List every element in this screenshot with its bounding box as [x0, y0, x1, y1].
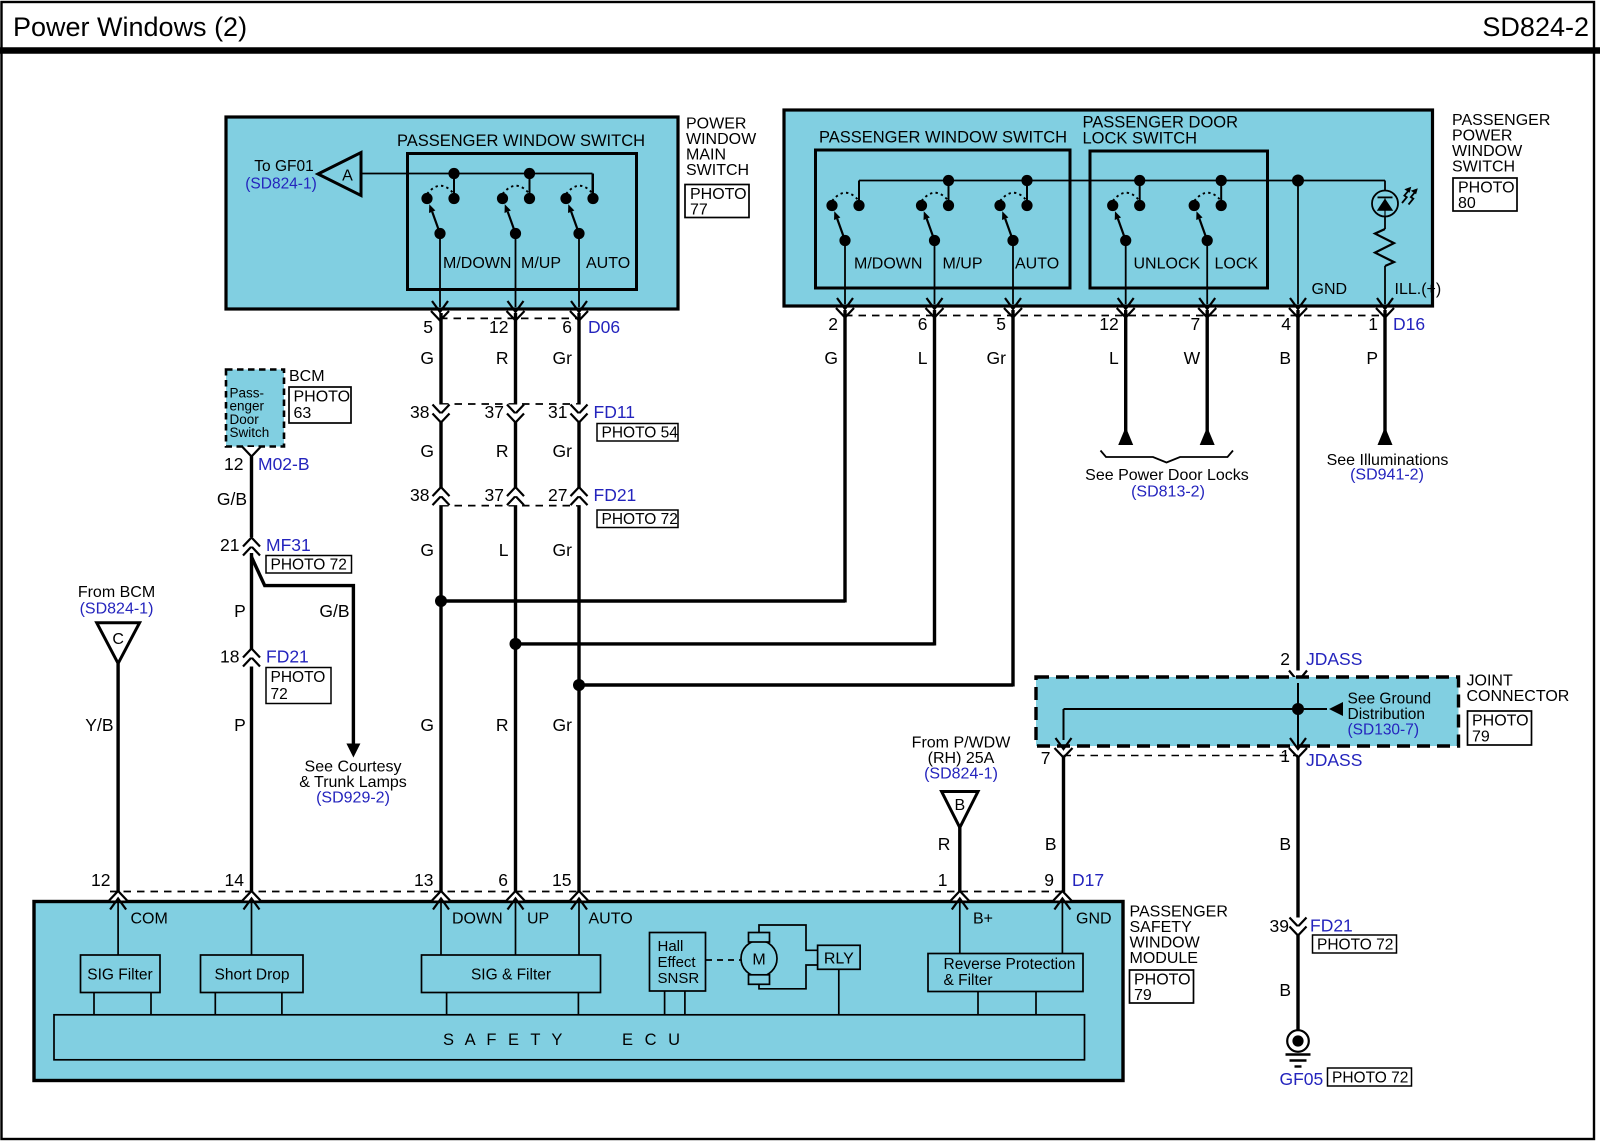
connector D16 pin 7: [1198, 308, 1216, 318]
svg-text:SWITCH: SWITCH: [686, 162, 749, 179]
wire: pin2 G down and left to junction: [843, 310, 846, 603]
svg-text:AUTO: AUTO: [586, 255, 630, 272]
connector JDASS pin 1 exit: [1289, 748, 1307, 758]
svg-text:& Filter: & Filter: [944, 972, 993, 989]
svg-text:PASSENGER WINDOW SWITCH: PASSENGER WINDOW SWITCH: [819, 129, 1067, 147]
svg-text:MAIN: MAIN: [686, 147, 726, 164]
switch M/UP (passenger): [948, 181, 950, 206]
svg-text:RLY: RLY: [824, 951, 854, 968]
connector D17 pin 13: [432, 891, 450, 901]
svg-text:SD824-2: SD824-2: [1482, 12, 1589, 42]
svg-text:38: 38: [410, 485, 429, 505]
passenger safety window module (cyan box): [34, 902, 1123, 1081]
svg-text:G: G: [824, 348, 838, 368]
wire P: MF31 down to module pin 14: [250, 553, 253, 892]
wire: pin13 to SIG & Filter: [440, 903, 442, 955]
node: GND tap on rail: [1292, 175, 1304, 187]
svg-text:6: 6: [562, 317, 572, 337]
wire: pin4 B (GND) down to joint connector: [1296, 310, 1299, 671]
wire: pin9 GND to reverse protection: [1061, 903, 1063, 954]
svg-text:Distribution: Distribution: [1348, 706, 1426, 723]
svg-text:L: L: [1109, 348, 1119, 368]
svg-text:W: W: [1184, 348, 1201, 368]
svg-text:M: M: [752, 952, 765, 969]
connector FD21 dashed line: [441, 505, 579, 507]
svg-text:5: 5: [423, 317, 433, 337]
photo box PHOTO 77: [685, 185, 749, 218]
svg-text:37: 37: [485, 485, 504, 505]
svg-text:M/UP: M/UP: [943, 256, 983, 273]
block Short Drop: [201, 955, 304, 993]
svg-text:2: 2: [1280, 649, 1290, 669]
svg-text:(SD824-1): (SD824-1): [924, 766, 998, 783]
svg-text:Gr: Gr: [987, 348, 1007, 368]
svg-text:(SD813-2): (SD813-2): [1131, 484, 1205, 501]
svg-text:Short Drop: Short Drop: [215, 967, 290, 984]
node: junction on G wire: [435, 595, 447, 607]
wire: UNLOCK to pin 12: [1125, 239, 1127, 305]
svg-text:G: G: [420, 348, 434, 368]
wire RLY to ECU: [838, 969, 840, 1015]
svg-text:PHOTO: PHOTO: [690, 186, 747, 203]
svg-text:(SD941-2): (SD941-2): [1350, 467, 1424, 484]
inner switch frame (main): [408, 154, 637, 290]
svg-text:PHOTO: PHOTO: [1472, 713, 1529, 730]
svg-text:AUTO: AUTO: [1015, 256, 1059, 273]
wire B: JDASS pin1 down to FD21: [1296, 757, 1299, 918]
wire R: triangle B to module pin 1: [958, 828, 961, 893]
svg-text:SAFETY: SAFETY: [1130, 919, 1193, 936]
svg-text:12: 12: [1099, 314, 1118, 334]
svg-text:G/B: G/B: [319, 601, 349, 621]
svg-text:Power Windows (2): Power Windows (2): [13, 12, 247, 42]
arrow to power door locks (left): [1118, 427, 1133, 445]
photo box PHOTO 72: [266, 668, 331, 704]
connector FD21 pin 38: [433, 496, 450, 505]
svg-text:WINDOW: WINDOW: [1452, 143, 1523, 160]
svg-text:Gr: Gr: [553, 348, 573, 368]
svg-text:M/DOWN: M/DOWN: [854, 256, 922, 273]
svg-text:LOCK: LOCK: [1215, 256, 1259, 273]
motor loop wiring: [759, 925, 818, 950]
connector D16 dashed line: [845, 315, 1385, 317]
svg-text:From P/WDW: From P/WDW: [912, 735, 1012, 752]
svg-text:WINDOW: WINDOW: [686, 131, 757, 148]
connector D16 pin 1: [1376, 308, 1394, 318]
wire G (pin5) D06 to module pin13: [439, 313, 442, 892]
photo box PHOTO 72: [266, 556, 352, 574]
svg-text:15: 15: [552, 870, 571, 890]
photo box PHOTO 79: [1130, 970, 1194, 1003]
connector D17 pin 9: [1053, 891, 1071, 901]
wire G/B: BCM to MF31: [250, 457, 253, 538]
svg-text:JOINT: JOINT: [1467, 673, 1513, 690]
wire R (pin12) D06 to module pin6: [514, 313, 517, 892]
connector JDASS pin 7 exit: [1055, 748, 1073, 758]
svg-text:72: 72: [271, 686, 288, 703]
wire: pin15 to SIG & Filter: [578, 903, 580, 955]
svg-text:JDASS: JDASS: [1306, 649, 1362, 669]
connector M02-B pin 12 chevron: [243, 447, 261, 457]
switch M/DOWN (passenger): [858, 181, 860, 206]
wire B: JDASS pin7 to module pin 9: [1062, 757, 1065, 892]
node: junction in joint connector: [1292, 703, 1304, 715]
svg-text:B: B: [1045, 834, 1057, 854]
svg-text:Reverse Protection: Reverse Protection: [944, 956, 1076, 973]
stubs reverse protection to ECU: [977, 992, 979, 1015]
svg-text:D17: D17: [1072, 870, 1104, 890]
passenger power window switch (cyan box): [784, 110, 1433, 306]
wire: M/UP to pin 12: [515, 234, 517, 308]
power window main switch U-main (cyan box): [226, 117, 678, 309]
wire: pin6 L down and left to junction: [933, 310, 936, 646]
svg-text:GND: GND: [1076, 911, 1112, 928]
svg-text:Y/B: Y/B: [85, 715, 113, 735]
svg-text:L: L: [499, 540, 509, 560]
connector D17 pin 1: [951, 891, 969, 901]
svg-text:& Trunk Lamps: & Trunk Lamps: [299, 774, 407, 791]
svg-text:PHOTO 72: PHOTO 72: [602, 511, 678, 528]
svg-text:6: 6: [498, 870, 508, 890]
svg-text:63: 63: [294, 405, 312, 422]
joint connector (dashed cyan box): [1036, 677, 1459, 746]
photo box PHOTO 72: [1328, 1068, 1412, 1086]
svg-text:See Courtesy: See Courtesy: [305, 759, 402, 776]
svg-text:PHOTO: PHOTO: [294, 389, 351, 406]
svg-text:B: B: [954, 797, 965, 814]
svg-text:A: A: [342, 168, 353, 185]
svg-text:12: 12: [224, 454, 243, 474]
svg-text:ILL.(+): ILL.(+): [1395, 281, 1442, 298]
svg-text:MODULE: MODULE: [1130, 950, 1198, 967]
svg-text:P: P: [1366, 348, 1378, 368]
svg-text:GF05: GF05: [1280, 1069, 1324, 1089]
wire: AUTO to pin 6: [578, 234, 580, 308]
svg-text:GND: GND: [1312, 281, 1348, 298]
connector triangle B: [942, 792, 978, 828]
svg-text:Effect: Effect: [658, 954, 697, 971]
svg-text:COM: COM: [131, 911, 168, 928]
svg-text:JDASS: JDASS: [1306, 750, 1362, 770]
svg-text:G: G: [420, 441, 434, 461]
connector FD21 pin 37: [507, 496, 524, 505]
photo box PHOTO 79: [1468, 711, 1532, 745]
svg-text:31: 31: [548, 402, 567, 422]
svg-text:E C U: E C U: [622, 1031, 684, 1049]
svg-text:PHOTO 72: PHOTO 72: [1317, 937, 1393, 954]
svg-text:(SD824-1): (SD824-1): [245, 176, 317, 193]
svg-text:R: R: [496, 441, 509, 461]
svg-text:G: G: [420, 540, 434, 560]
connector FD11 pin 31: [571, 405, 588, 414]
wire B: FD21 to ground GF05: [1296, 934, 1299, 1031]
svg-text:POWER: POWER: [1452, 128, 1512, 145]
wire: pin6 to SIG & Filter: [515, 903, 517, 955]
svg-text:PHOTO 72: PHOTO 72: [271, 557, 347, 574]
stubs Short Drop to ECU: [214, 993, 216, 1015]
svg-text:SNSR: SNSR: [658, 970, 700, 987]
connector D06 dashed line: [440, 317, 579, 319]
svg-text:5: 5: [996, 314, 1006, 334]
svg-text:POWER: POWER: [686, 116, 746, 133]
connector D06 pin 5: [431, 311, 449, 321]
switch M/UP (main): [529, 174, 531, 199]
connector D06 pin 12: [507, 311, 525, 321]
svg-text:UP: UP: [527, 911, 549, 928]
svg-text:79: 79: [1134, 987, 1152, 1004]
wire Y/B: triangle C to module pin 12: [116, 663, 119, 892]
wire: M/DOWN (passenger) to pin 2: [844, 239, 846, 305]
svg-text:AUTO: AUTO: [589, 911, 633, 928]
svg-text:SIG & Filter: SIG & Filter: [471, 967, 551, 984]
wire: link G to passenger switch pin2: [441, 599, 845, 602]
brace under power door lock wires: [1101, 451, 1234, 463]
arrow see ground distribution: [1329, 702, 1343, 716]
svg-text:DOWN: DOWN: [452, 911, 503, 928]
svg-text:L: L: [918, 348, 928, 368]
LED illumination lamp: [1384, 181, 1386, 192]
svg-text:(SD929-2): (SD929-2): [316, 790, 390, 807]
wire inside joint connector: [1064, 708, 1328, 710]
node: junction on Gr wire: [573, 679, 585, 691]
motor M: [741, 941, 777, 977]
svg-text:(RH) 25A: (RH) 25A: [928, 750, 995, 767]
svg-text:Gr: Gr: [553, 715, 573, 735]
connector FD21 pin 18: [243, 658, 260, 667]
svg-text:39: 39: [1270, 916, 1289, 936]
svg-text:WINDOW: WINDOW: [1130, 935, 1201, 952]
svg-text:M02-B: M02-B: [258, 454, 310, 474]
svg-text:79: 79: [1472, 729, 1490, 746]
block SIG & Filter: [422, 955, 601, 993]
switch LOCK: [1220, 181, 1222, 206]
stubs Hall sensor to ECU: [664, 991, 666, 1015]
switch AUTO (passenger): [1026, 181, 1028, 206]
wire: GND tap to pin 4: [1297, 181, 1299, 305]
wire: pin5 Gr down and left to junction: [1011, 310, 1014, 687]
svg-text:P: P: [234, 715, 246, 735]
connector triangle C from BCM: [97, 623, 140, 664]
wire: LOCK to pin 7: [1206, 239, 1208, 305]
connector D16 pin 4: [1289, 308, 1307, 318]
svg-text:1: 1: [938, 870, 948, 890]
svg-text:13: 13: [414, 870, 433, 890]
svg-text:D16: D16: [1393, 314, 1425, 334]
svg-text:27: 27: [548, 485, 567, 505]
connector FD11 pin 38: [433, 405, 450, 414]
svg-text:(SD130-7): (SD130-7): [1348, 722, 1420, 739]
svg-text:G/B: G/B: [217, 489, 247, 509]
wire Gr (pin6) D06 to module pin15: [577, 313, 580, 892]
wire: link Gr to passenger switch pin5: [579, 683, 1013, 686]
svg-text:PHOTO 72: PHOTO 72: [1332, 1070, 1408, 1087]
connector FD21 pin 27: [571, 496, 588, 505]
svg-text:B: B: [1279, 834, 1291, 854]
wire: M/DOWN to pin 5: [439, 234, 441, 308]
connector D17 pin 6: [507, 891, 525, 901]
svg-text:PASSENGER WINDOW SWITCH: PASSENGER WINDOW SWITCH: [397, 132, 645, 150]
svg-text:R: R: [938, 834, 951, 854]
stubs SIG Filter to ECU: [93, 993, 95, 1015]
wire: pin1 P to illuminations: [1383, 310, 1386, 432]
svg-text:9: 9: [1044, 870, 1054, 890]
svg-text:PHOTO: PHOTO: [1134, 972, 1191, 989]
connector D17 pin 15: [570, 891, 588, 901]
svg-text:4: 4: [1281, 314, 1291, 334]
switch UNLOCK: [1139, 181, 1141, 206]
svg-text:FD11: FD11: [594, 402, 636, 422]
LED light arrows: [1402, 191, 1409, 203]
svg-text:14: 14: [225, 870, 245, 890]
ground GF05: [1287, 1030, 1309, 1052]
svg-text:38: 38: [410, 402, 429, 422]
svg-text:PHOTO 54: PHOTO 54: [602, 425, 679, 442]
wire: pin12 to SIG Filter: [117, 903, 119, 955]
connector triangle A To GF01: [318, 153, 361, 196]
svg-text:80: 80: [1458, 195, 1476, 212]
wire: link to passenger switch pin6: [516, 642, 935, 645]
block Hall Effect SNSR: [650, 933, 706, 992]
connector D16 pin 6: [926, 308, 944, 318]
svg-text:FD21: FD21: [266, 647, 309, 667]
svg-text:FD21: FD21: [594, 485, 637, 505]
BCM passenger door switch (dashed cyan box): [226, 370, 284, 447]
svg-text:7: 7: [1190, 314, 1200, 334]
block SIG Filter: [81, 955, 161, 993]
svg-text:M/DOWN: M/DOWN: [443, 255, 511, 272]
wire G/B branch to courtesy lamps: [252, 557, 354, 744]
svg-text:B: B: [1279, 980, 1291, 1000]
inner switch frame (door lock): [1090, 151, 1268, 288]
wire: AUTO (passenger) to pin 5: [1012, 239, 1014, 305]
wire: pin1 B+ to reverse protection: [959, 903, 961, 954]
svg-text:Switch: Switch: [230, 425, 270, 440]
wire: pin14 to Short Drop: [251, 903, 253, 955]
svg-text:D06: D06: [588, 317, 620, 337]
svg-text:See Ground: See Ground: [1348, 691, 1432, 708]
connector D06 pin 6: [570, 311, 588, 321]
connector D17 pin 12: [109, 891, 127, 901]
arrow to illuminations: [1378, 427, 1393, 445]
wire: M/UP (passenger) to pin 6: [934, 239, 936, 305]
connector D17 dashed line: [110, 891, 1066, 893]
connector JDASS dashed line: [1064, 755, 1299, 757]
photo box PHOTO 80: [1453, 178, 1517, 211]
block SAFETY ECU: [54, 1015, 1085, 1060]
header rule: [0, 47, 1600, 54]
svg-text:UNLOCK: UNLOCK: [1134, 256, 1201, 273]
svg-text:FD21: FD21: [1310, 916, 1353, 936]
photo box PHOTO 63: [289, 387, 351, 423]
svg-text:S A F E T Y: S A F E T Y: [443, 1031, 566, 1049]
connector MF31 pin 21: [243, 547, 260, 556]
svg-text:6: 6: [918, 314, 928, 334]
svg-text:1: 1: [1280, 746, 1290, 766]
connector FD11 dashed line: [441, 403, 579, 405]
connector FD11 pin 37: [507, 405, 524, 414]
svg-text:Gr: Gr: [553, 540, 573, 560]
svg-text:7: 7: [1041, 748, 1051, 768]
wire: switch rail (main): [361, 173, 593, 175]
resistor (illumination): [1384, 217, 1386, 230]
svg-text:P: P: [234, 601, 246, 621]
svg-text:Gr: Gr: [553, 441, 573, 461]
svg-text:77: 77: [690, 202, 708, 219]
connector D17 pin 14: [243, 891, 261, 901]
svg-text:1: 1: [1368, 314, 1378, 334]
svg-text:PHOTO: PHOTO: [271, 669, 326, 686]
photo box PHOTO 72: [1313, 935, 1397, 953]
svg-text:MF31: MF31: [266, 535, 311, 555]
svg-text:12: 12: [91, 870, 110, 890]
svg-text:SWITCH: SWITCH: [1452, 159, 1515, 176]
svg-text:PASSENGER: PASSENGER: [1130, 904, 1228, 921]
svg-text:B: B: [1279, 348, 1291, 368]
svg-text:PHOTO: PHOTO: [1458, 180, 1515, 197]
svg-text:C: C: [112, 631, 124, 648]
arrow to power door locks (right): [1200, 427, 1215, 445]
wire: JDASS pin2 through joint connector: [1297, 683, 1299, 746]
svg-text:R: R: [496, 715, 509, 735]
block RLY: [818, 945, 861, 969]
svg-text:18: 18: [220, 647, 239, 667]
svg-text:See Power Door Locks: See Power Door Locks: [1085, 467, 1249, 484]
svg-text:From BCM: From BCM: [78, 584, 155, 601]
wire: pin7 W to power door locks: [1205, 310, 1208, 432]
svg-text:2: 2: [828, 314, 838, 334]
svg-text:B+: B+: [973, 911, 993, 928]
wire: resistor to pin 1: [1384, 266, 1386, 304]
block Reverse Protection & Filter: [928, 954, 1083, 992]
stubs SIG & Filter to ECU: [446, 993, 448, 1015]
wire: switch rail (passenger): [859, 180, 1385, 182]
photo box PHOTO 54: [597, 424, 678, 442]
wire: pin12 L to power door locks: [1124, 310, 1127, 432]
svg-text:PASSENGER: PASSENGER: [1452, 112, 1550, 129]
connector D16 pin 2: [836, 308, 854, 318]
svg-text:To GF01: To GF01: [254, 158, 313, 175]
svg-text:R: R: [496, 348, 509, 368]
dashed link hall sensor to motor: [706, 959, 741, 961]
connector JDASS pin 2 entry: [1289, 671, 1307, 682]
connector D16 pin 12: [1117, 308, 1135, 318]
arrow to courtesy lamps: [346, 744, 360, 758]
svg-text:BCM: BCM: [289, 368, 325, 385]
svg-text:CONNECTOR: CONNECTOR: [1467, 688, 1570, 705]
node: junction on middle wire: [510, 638, 522, 650]
svg-text:37: 37: [485, 402, 504, 422]
svg-text:Hall: Hall: [658, 938, 684, 955]
connector D16 pin 5: [1004, 308, 1022, 318]
svg-text:M/UP: M/UP: [521, 255, 561, 272]
svg-text:12: 12: [489, 317, 508, 337]
switch M/DOWN (main): [453, 174, 455, 199]
svg-text:21: 21: [220, 535, 239, 555]
svg-text:(SD824-1): (SD824-1): [80, 601, 154, 618]
svg-text:SIG Filter: SIG Filter: [87, 967, 152, 984]
inner switch frame (window): [816, 150, 1071, 288]
connector FD21 pin 39: [1290, 918, 1307, 927]
svg-text:G: G: [420, 715, 434, 735]
svg-text:LOCK SWITCH: LOCK SWITCH: [1083, 130, 1198, 148]
switch AUTO (main): [592, 174, 594, 199]
photo box PHOTO 72: [597, 510, 678, 528]
